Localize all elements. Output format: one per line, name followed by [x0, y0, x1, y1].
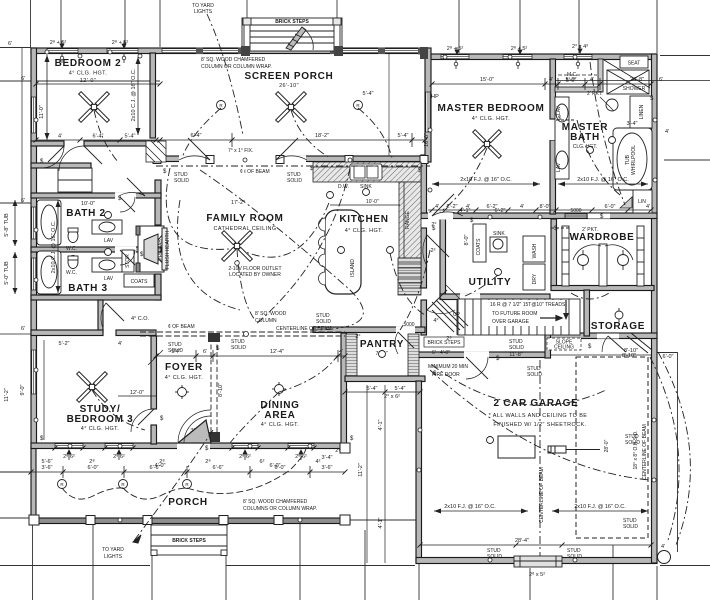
window screen porch band left [162, 49, 240, 53]
driveway edge right of garage [677, 352, 679, 552]
window screen porch east wall [426, 92, 430, 132]
svg-text:2x10 F.J. @ 16" O.C.: 2x10 F.J. @ 16" O.C. [577, 177, 629, 183]
wall: utility south [440, 294, 550, 300]
svg-text:FLUSH HEARTH: FLUSH HEARTH [165, 230, 171, 269]
door fire garage [466, 357, 488, 379]
svg-text:SINK: SINK [493, 231, 505, 237]
window study bottom 1 [55, 444, 83, 448]
svg-text:9'-0": 9'-0" [20, 384, 26, 395]
arc garage sweep 1 [432, 365, 606, 405]
svg-text:BATH 3: BATH 3 [68, 283, 108, 294]
wall: family west below fireplace [155, 274, 161, 300]
arc garage sweep 2 [430, 370, 650, 480]
dim arrowheads [56, 57, 649, 514]
svg-text:6'-0": 6'-0" [88, 465, 99, 471]
svg-text:BEDROOM 2: BEDROOM 2 [55, 58, 122, 69]
tub whirlpool [613, 128, 652, 190]
wardrobe rod symbols [578, 255, 589, 266]
window center marks master [60, 54, 580, 69]
svg-text:4': 4' [435, 204, 439, 210]
light pantry [379, 351, 386, 358]
svg-text:6': 6' [21, 326, 25, 332]
wall: garage bottom [416, 558, 657, 564]
svg-text:5'-4": 5'-4" [395, 386, 406, 392]
svg-text:LIGHTS: LIGHTS [104, 554, 123, 560]
dim vertical bedroom2 joists [137, 57, 139, 135]
arc family big sweep [200, 170, 363, 330]
svg-text:6²: 6² [260, 459, 265, 465]
svg-text:6'-0": 6'-0" [605, 204, 616, 210]
arc porch right sweep [187, 445, 306, 494]
svg-text:UTILITY: UTILITY [469, 277, 512, 288]
note: slope ceiling [547, 338, 581, 351]
gap fire door [464, 352, 489, 359]
svg-text:COLUMN OR COLUMN WRAP.: COLUMN OR COLUMN WRAP. [201, 64, 272, 70]
door bath3 [120, 250, 135, 265]
dim arrows garage joists [434, 510, 528, 512]
svg-text:RANGE: RANGE [405, 210, 411, 228]
kitchen sink [350, 164, 382, 180]
wardrobe rod arcs [573, 245, 601, 260]
svg-text:FOYER: FOYER [165, 362, 203, 373]
svg-text:12'-0": 12'-0" [80, 78, 96, 84]
svg-text:¢ ℓ OF BEAM: ¢ ℓ OF BEAM [240, 169, 270, 175]
gap utility door [460, 294, 480, 301]
svg-text:2⁸: 2⁸ [446, 335, 451, 342]
svg-text:11'-8": 11'-8" [509, 352, 523, 358]
svg-text:SOLID: SOLID [174, 178, 189, 184]
wall: kitchen south / pantry north [313, 327, 425, 333]
svg-text:3°: 3° [190, 428, 195, 434]
svg-text:4'-1": 4'-1" [378, 517, 384, 528]
dim line wardrobe [551, 354, 651, 356]
svg-text:4²: 4² [316, 459, 321, 465]
svg-text:6'-0": 6'-0" [663, 354, 674, 360]
svg-text:5'-0": 5'-0" [566, 77, 577, 83]
foyer column posts [208, 333, 220, 442]
svg-text:SCREEN PORCH: SCREEN PORCH [245, 71, 334, 82]
light kitchen 2 [327, 192, 334, 199]
svg-text:HP: HP [431, 94, 439, 100]
light masterbath2 [609, 137, 616, 144]
svg-text:12'-0": 12'-0" [130, 390, 144, 396]
light foyer [175, 385, 189, 399]
dim line foyer/dining [156, 355, 345, 357]
svg-text:4° C.O.: 4° C.O. [131, 316, 150, 322]
bath3 lav counter [92, 258, 122, 272]
refrigerator dark [398, 258, 421, 295]
foyer colonnade dashed [210, 337, 212, 440]
svg-text:2° x 6²: 2° x 6² [384, 394, 400, 400]
svg-text:11'-2": 11'-2" [358, 463, 364, 477]
stairs diagonal hatch left end [432, 298, 468, 332]
svg-text:4': 4' [58, 134, 62, 140]
svg-text:11'-2": 11'-2" [4, 388, 10, 402]
arc wardrobe lights [571, 293, 609, 299]
svg-text:TO YARD: TO YARD [102, 547, 124, 553]
svg-text:6': 6' [21, 198, 25, 204]
porch column 4 [219, 516, 228, 525]
svg-text:2 CAR GARAGE: 2 CAR GARAGE [493, 398, 578, 409]
wall: pantry south [345, 376, 425, 382]
gap bath2 door [115, 193, 136, 200]
dim line garage bottom [420, 544, 651, 546]
svg-text:PANTRY: PANTRY [360, 339, 404, 350]
light storage [615, 308, 623, 322]
svg-text:8'-0": 8'-0" [540, 204, 551, 210]
svg-text:28'-0": 28'-0" [604, 439, 610, 452]
wall: hall south below bedroom2 [31, 163, 91, 168]
svg-text:4': 4' [590, 77, 594, 83]
wardrobe shelf left [562, 226, 569, 286]
beam line stub left [0, 333, 31, 335]
svg-text:PORCH: PORCH [168, 497, 208, 508]
window posts screen porch [196, 48, 426, 55]
svg-text:2x10 F.J. @ 16" O.C.: 2x10 F.J. @ 16" O.C. [444, 504, 496, 510]
porch column 1 [29, 515, 39, 525]
window master top 1 [441, 55, 469, 59]
svg-text:6': 6' [203, 349, 207, 355]
dashed rect garage OHSD ceiling [576, 357, 648, 538]
gap master door [428, 213, 453, 220]
extra tiny dims [21, 64, 669, 465]
svg-text:MASTER BEDROOM: MASTER BEDROOM [437, 103, 544, 114]
gap bath3 door [115, 247, 136, 254]
light screen porch 1 [217, 101, 226, 110]
svg-text:W.C.: W.C. [66, 246, 77, 252]
svg-text:2⁸ x 5²: 2⁸ x 5² [529, 571, 545, 578]
dim line master interior top [432, 83, 651, 85]
svg-text:CENTERLINE OF BEAM: CENTERLINE OF BEAM [539, 467, 545, 523]
dim line screen porch interior [160, 139, 425, 141]
porch column 2 [86, 516, 95, 525]
arc utility [465, 275, 498, 296]
wall: bedroom2 east [150, 53, 156, 138]
ceiling fan master bedroom [473, 130, 502, 159]
svg-text:2x10 C.J. @ 16" O.C.: 2x10 C.J. @ 16" O.C. [131, 68, 137, 121]
grid left horizontals [0, 47, 31, 49]
light porch 2 [119, 480, 128, 489]
svg-text:MINIMUM 20 MIN: MINIMUM 20 MIN [428, 364, 468, 370]
gap wardrobe pocket [588, 214, 610, 219]
window bedroom2 top 2 [107, 49, 138, 53]
arc bedroom2 fan [94, 110, 118, 162]
svg-text:2⁸: 2⁸ [205, 458, 210, 465]
svg-text:15'-0": 15'-0" [480, 77, 494, 83]
arc kitchen to hall [390, 253, 425, 315]
wall: bath3 south [31, 295, 161, 300]
porch column 3 [143, 516, 152, 525]
svg-text:4° CLG. HGT.: 4° CLG. HGT. [165, 375, 204, 381]
arc porch lights S 2 [123, 488, 187, 499]
arc foyer to yard lights bottom [133, 430, 213, 542]
light porch 1 [58, 480, 67, 489]
svg-text:6': 6' [8, 41, 12, 47]
gap foyer front door [177, 443, 210, 450]
washer [523, 236, 545, 262]
svg-text:6': 6' [21, 76, 25, 82]
bath2 wc [68, 230, 78, 243]
svg-text:4'-1": 4'-1" [378, 419, 384, 430]
svg-text:LOCATED BY OWNER: LOCATED BY OWNER [229, 272, 281, 278]
kitchen island [325, 210, 361, 294]
mc closet wall [555, 87, 603, 92]
bath2 lav counter [92, 220, 122, 234]
svg-text:2⁸: 2⁸ [159, 458, 164, 465]
svg-text:4° CLG. HGT.: 4° CLG. HGT. [472, 116, 511, 122]
svg-text:24'-8": 24'-8" [630, 77, 644, 83]
stor closet [122, 250, 134, 272]
dim line kitchen [330, 204, 400, 206]
svg-text:WASH: WASH [532, 243, 538, 258]
door utility->garage area closet [446, 285, 460, 299]
svg-text:* ALL WALLS AND CEILING TO BE: * ALL WALLS AND CEILING TO BE [489, 413, 588, 419]
centerline of beam screen porch/family [156, 165, 430, 167]
light screen porch 2 [354, 101, 363, 110]
svg-text:28'-4": 28'-4" [515, 538, 529, 544]
arc master bath dashes [590, 62, 625, 205]
wc master [606, 99, 618, 111]
dim line master above bottom wall [428, 209, 651, 211]
svg-text:SOLID: SOLID [527, 372, 542, 378]
svg-text:2°: 2° [355, 334, 360, 340]
gap bath west wall [550, 120, 557, 140]
svg-text:FINISHED W/ 1/2" SHEETROCK.: FINISHED W/ 1/2" SHEETROCK. [493, 422, 586, 428]
tub dim lines left [14, 200, 16, 246]
dim arrows master joists 2 [558, 183, 648, 185]
grid bottom long line [0, 565, 150, 567]
svg-text:8'-10": 8'-10" [624, 348, 638, 354]
wall: right exterior [652, 54, 658, 563]
arc family room big left [166, 168, 237, 249]
wall: garage west [416, 381, 422, 563]
svg-text:4° CLG. HGT.: 4° CLG. HGT. [69, 71, 108, 77]
svg-text:KITCHEN: KITCHEN [339, 214, 388, 225]
dim vertical pantry/garage left [366, 385, 368, 563]
arc fan family to floor outlet [237, 249, 255, 320]
door utility from hall [427, 235, 449, 257]
svg-text:6': 6' [659, 77, 663, 83]
svg-text:2x10 F.J. @ 16" O.C.: 2x10 F.J. @ 16" O.C. [460, 177, 512, 183]
wall: study north [31, 330, 103, 336]
svg-text:LAV: LAV [104, 238, 114, 244]
door hall closet above study [106, 303, 124, 321]
door bedroom2 (hall) [84, 146, 102, 164]
arc screen porch fan [291, 110, 330, 158]
svg-text:LAV: LAV [104, 276, 114, 282]
svg-text:LAV: LAV [556, 162, 562, 172]
svg-text:PRE-FAB: PRE-FAB [158, 239, 164, 261]
svg-text:BEDROOM 3: BEDROOM 3 [67, 414, 134, 425]
svg-text:SOLID: SOLID [231, 345, 246, 351]
svg-text:8'-10": 8'-10" [218, 383, 224, 397]
dim line bedroom2 interior [36, 83, 160, 85]
svg-text:5000: 5000 [570, 208, 581, 214]
door master bedroom [432, 194, 454, 216]
gap storage door [597, 334, 619, 339]
svg-text:COATS: COATS [131, 279, 149, 285]
svg-text:4° CLG. HGT.: 4° CLG. HGT. [345, 228, 384, 234]
ceiling fan study [77, 372, 108, 403]
svg-text:4': 4' [118, 341, 122, 347]
porch column 6 [340, 515, 350, 525]
front door foyer [178, 420, 211, 443]
wall: left exterior [31, 48, 37, 448]
mid horizontal between porch and garage [350, 519, 417, 521]
svg-text:3'-4": 3'-4" [627, 121, 638, 127]
svg-text:6': 6' [432, 350, 436, 356]
wall: family west above fireplace [155, 180, 161, 225]
door study closet [148, 350, 163, 365]
svg-text:17'-2": 17'-2" [231, 200, 245, 206]
gap french door right [277, 156, 306, 163]
bath3 wc [68, 256, 78, 269]
svg-text:2°: 2° [431, 222, 436, 228]
svg-text:12'-4": 12'-4" [270, 349, 284, 355]
wall: top exterior bedroom2+screen porch [31, 48, 425, 54]
svg-text:4': 4' [661, 544, 665, 550]
svg-text:4° CLG. HGT.: 4° CLG. HGT. [81, 426, 120, 432]
svg-text:5'-4": 5'-4" [398, 133, 409, 139]
wall: bath2/bath3 divider [31, 247, 161, 252]
svg-text:4° CLG. HGT.: 4° CLG. HGT. [261, 422, 300, 428]
door bedroom2 SW [42, 146, 64, 168]
water heater platform [498, 436, 535, 458]
bath3 tub [37, 251, 61, 294]
svg-text:3'-6": 3'-6" [322, 465, 333, 471]
wall: master suite bottom [421, 213, 657, 219]
light dining [272, 382, 286, 396]
window screen porch band right [336, 49, 422, 53]
svg-text:6'-4": 6'-4" [191, 133, 202, 139]
door hall lower [427, 290, 447, 310]
door master bath pocket [556, 119, 575, 121]
svg-text:TO FUTURE ROOM: TO FUTURE ROOM [492, 311, 537, 317]
door bath hall [127, 178, 145, 196]
svg-text:CEILING: CEILING [554, 345, 574, 351]
arc garage outside big [658, 352, 690, 545]
svg-text:6'-0": 6'-0" [270, 463, 281, 469]
light bath2 [105, 212, 112, 219]
wall: kitchen/hall vertical [421, 155, 427, 213]
porch SE corner post [420, 47, 428, 59]
wall: utility west [440, 219, 446, 297]
svg-text:DRY: DRY [532, 273, 538, 284]
window dining bottom 1 [232, 444, 258, 448]
svg-text:4'-0": 4'-0" [440, 350, 450, 356]
svg-text:2x10 C.J. @ 16" O.C.: 2x10 C.J. @ 16" O.C. [51, 220, 57, 273]
svg-text:4': 4' [646, 204, 650, 210]
note: brick steps garage [424, 337, 464, 347]
svg-text:CENTERLINE OF BEAM: CENTERLINE OF BEAM [276, 326, 332, 332]
dim vertical left bath joists [57, 200, 59, 293]
light utility [495, 269, 502, 276]
svg-text:4°: 4° [433, 318, 438, 324]
dim line right of master [556, 80, 710, 82]
svg-text:BRICK STEPS: BRICK STEPS [275, 19, 309, 25]
svg-text:SOLID: SOLID [509, 345, 524, 351]
dim vertical bedroom2 left [46, 55, 48, 140]
svg-text:5'-2": 5'-2" [59, 341, 70, 347]
bath2 tub [37, 200, 61, 245]
svg-text:16 R @ 7 1/2" 15T@10" TREADS: 16 R @ 7 1/2" 15T@10" TREADS [490, 302, 566, 308]
svg-text:5'-4": 5'-4" [125, 134, 136, 140]
svg-text:2'-2": 2'-2" [447, 204, 458, 210]
dim line porch interior [0, 471, 345, 473]
svg-text:4': 4' [520, 204, 524, 210]
arrow to yard lights bottom [133, 535, 141, 543]
dim line bedroom2 bottom [36, 139, 160, 141]
ceiling fan family room [222, 231, 253, 262]
wall: bath2 north [31, 193, 161, 198]
coats closet [124, 274, 154, 287]
svg-text:5'-6": 5'-6" [42, 459, 53, 465]
svg-text:2²: 2² [431, 248, 436, 254]
wall: study east [151, 336, 157, 409]
window bath2 left (tub) [32, 207, 36, 239]
vertical extension screen porch x389 [388, 53, 390, 156]
arc screen porch light right [358, 108, 392, 158]
svg-text:26'-10": 26'-10" [279, 83, 299, 89]
wall: wardrobe south [551, 286, 654, 291]
svg-text:AREA: AREA [264, 410, 295, 421]
dryer [523, 264, 545, 290]
wall: dining east / pantry west below [341, 333, 347, 444]
master linen 2 [633, 190, 652, 213]
window study left [32, 350, 36, 394]
porch column 5 [274, 516, 283, 525]
svg-text:10'-0": 10'-0" [81, 201, 95, 207]
svg-text:5'4": 5'4" [171, 349, 180, 355]
svg-text:BRICK STEPS: BRICK STEPS [172, 538, 206, 544]
arc study fan [92, 390, 145, 430]
dashed centerline garage [539, 360, 541, 556]
svg-text:SOLID: SOLID [287, 178, 302, 184]
wall: porch left [31, 448, 36, 524]
wall: storage west [584, 290, 590, 336]
svg-text:8' SQ. WOOD CHAMFERED: 8' SQ. WOOD CHAMFERED [243, 499, 308, 505]
svg-text:8'-0": 8'-0" [464, 234, 470, 245]
svg-text:SOLID: SOLID [623, 524, 638, 530]
french door family right [276, 138, 298, 160]
light kitchen 3 [387, 247, 394, 254]
svg-text:W.C.: W.C. [66, 270, 77, 276]
svg-text:SOLID: SOLID [316, 319, 331, 325]
svg-text:5000: 5000 [403, 322, 414, 328]
svg-text:COATS: COATS [476, 238, 482, 256]
svg-text:¢ OF BEAM: ¢ OF BEAM [168, 324, 195, 330]
svg-text:2' PKT.: 2' PKT. [582, 227, 598, 233]
utility sink [490, 237, 507, 252]
arc family room to kitchen [237, 200, 330, 257]
light porch 3 [183, 480, 192, 489]
wardrobe shelf right [637, 226, 644, 286]
window dining bottom 2 [288, 444, 314, 448]
svg-text:2⁸: 2⁸ [335, 447, 340, 454]
arc dining light [279, 355, 338, 392]
window study bottom 2 [105, 444, 133, 448]
svg-text:2⁸: 2⁸ [89, 458, 94, 465]
door storage [608, 336, 626, 352]
wall: main bottom (study/foyer/dining) [31, 443, 346, 449]
grid top verticals [30, 0, 32, 47]
closet hatch bedroom2 SE [146, 141, 166, 162]
svg-text:WHIRLPOOL: WHIRLPOOL [631, 145, 637, 175]
corner circle garage SE [658, 551, 671, 564]
svg-text:8' SQ. WOOD CHAMFERED: 8' SQ. WOOD CHAMFERED [201, 57, 266, 63]
door wc master [600, 97, 614, 111]
door wardrobe [551, 227, 570, 229]
